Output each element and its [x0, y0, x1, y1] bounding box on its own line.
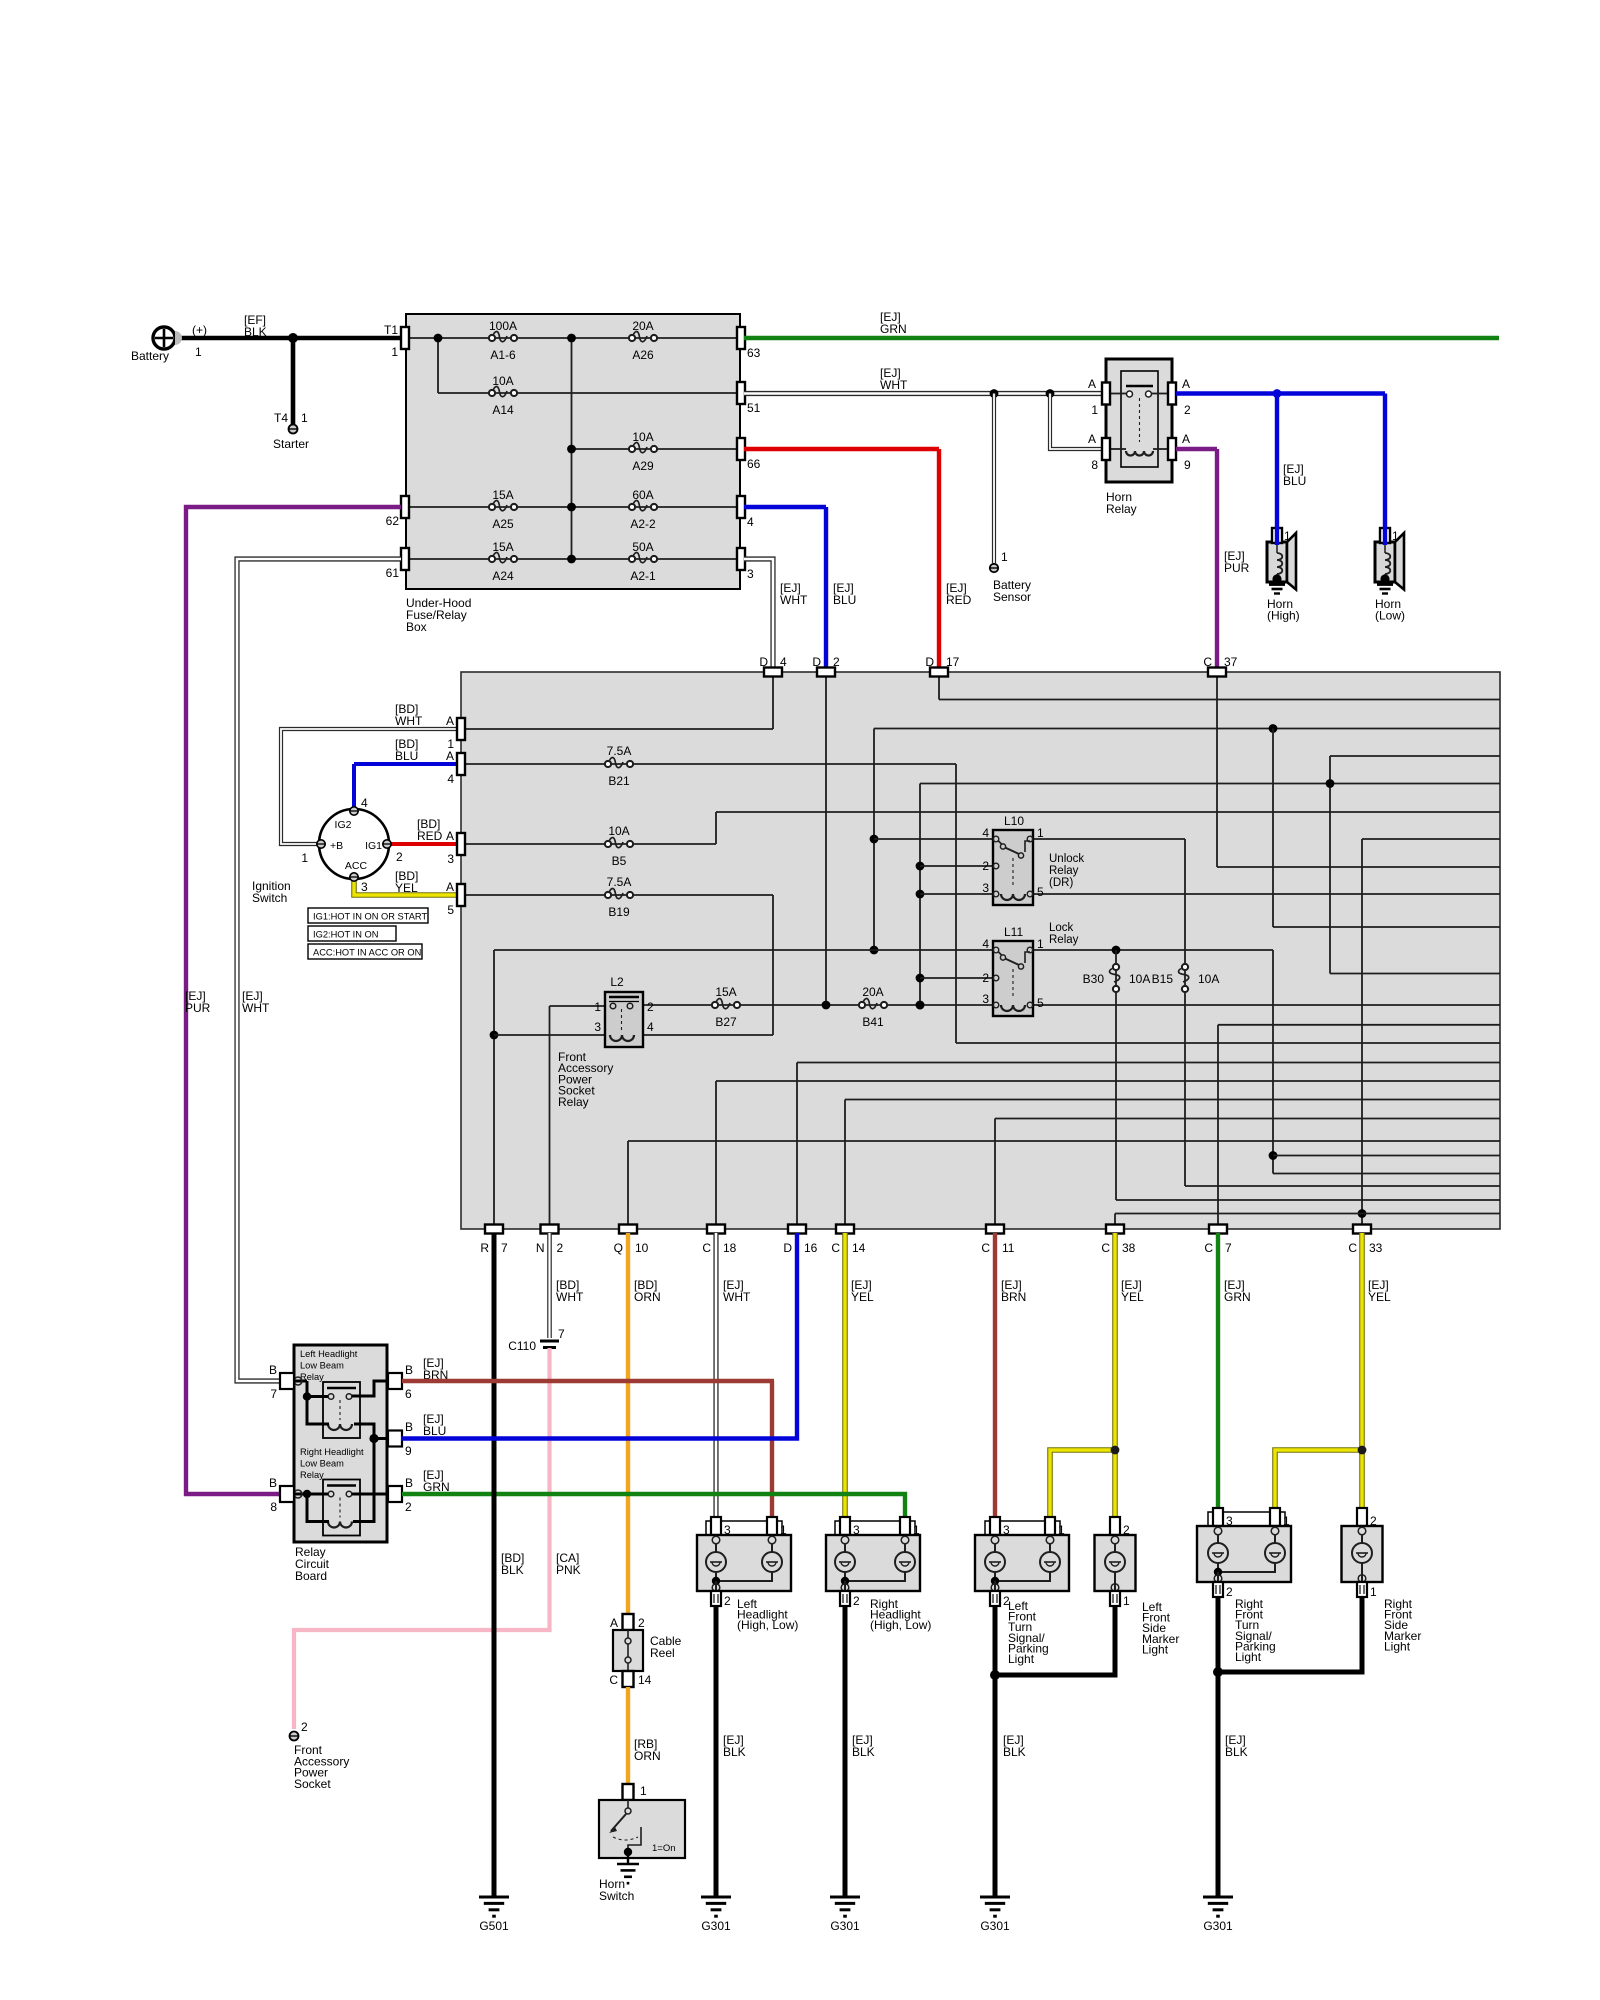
svg-text:B: B — [269, 1476, 277, 1490]
svg-text:Relay: Relay — [1049, 934, 1079, 946]
svg-text:3: 3 — [1226, 1514, 1233, 1528]
svg-text:WHT: WHT — [395, 714, 423, 728]
svg-text:Light: Light — [1008, 1652, 1035, 1666]
svg-text:YEL: YEL — [851, 1290, 874, 1304]
svg-text:BLK: BLK — [501, 1563, 524, 1577]
svg-text:4: 4 — [982, 937, 989, 951]
svg-text:3: 3 — [982, 881, 989, 895]
svg-text:7: 7 — [558, 1327, 565, 1341]
svg-text:4: 4 — [447, 772, 454, 786]
svg-text:1: 1 — [195, 345, 202, 359]
svg-text:Reel: Reel — [650, 1646, 675, 1660]
svg-text:L10: L10 — [1004, 814, 1024, 828]
svg-text:G301: G301 — [701, 1919, 731, 1933]
svg-text:GRN: GRN — [880, 322, 907, 336]
svg-text:1: 1 — [301, 411, 308, 425]
svg-text:BLU: BLU — [833, 593, 856, 607]
svg-text:1: 1 — [594, 1000, 601, 1014]
svg-text:WHT: WHT — [556, 1290, 584, 1304]
svg-text:1: 1 — [1284, 529, 1291, 543]
svg-text:BLK: BLK — [723, 1745, 746, 1759]
svg-text:4: 4 — [361, 796, 368, 810]
svg-text:ACC: ACC — [345, 860, 368, 872]
svg-text:17: 17 — [946, 655, 960, 669]
svg-text:C: C — [981, 1241, 990, 1255]
svg-text:IG2:HOT IN ON: IG2:HOT IN ON — [313, 930, 378, 940]
svg-text:1=On: 1=On — [652, 1843, 676, 1854]
svg-text:BLU: BLU — [395, 749, 418, 763]
svg-text:14: 14 — [852, 1241, 866, 1255]
svg-text:(High): (High) — [1267, 609, 1300, 623]
svg-text:A24: A24 — [492, 569, 514, 583]
svg-text:Box: Box — [406, 620, 427, 634]
svg-text:1: 1 — [913, 1523, 920, 1537]
svg-text:PUR: PUR — [185, 1001, 211, 1015]
svg-text:RED: RED — [417, 829, 443, 843]
svg-text:10A: 10A — [1198, 972, 1219, 986]
svg-text:Relay: Relay — [558, 1095, 589, 1109]
svg-text:WHT: WHT — [242, 1001, 270, 1015]
svg-text:B5: B5 — [612, 854, 627, 868]
svg-text:D: D — [925, 655, 934, 669]
svg-text:A29: A29 — [632, 459, 654, 473]
svg-text:B: B — [269, 1363, 277, 1377]
svg-text:10A: 10A — [492, 374, 513, 388]
svg-text:A14: A14 — [492, 403, 514, 417]
svg-text:Switch: Switch — [599, 1889, 634, 1903]
svg-text:20A: 20A — [632, 319, 653, 333]
svg-text:20A: 20A — [862, 985, 883, 999]
svg-text:7: 7 — [270, 1387, 277, 1401]
svg-text:Relay: Relay — [300, 1470, 324, 1480]
svg-text:15A: 15A — [492, 488, 513, 502]
svg-text:IG1: IG1 — [365, 840, 382, 852]
svg-text:Relay: Relay — [1106, 502, 1137, 516]
svg-text:9: 9 — [405, 1444, 412, 1458]
svg-text:1: 1 — [1392, 529, 1399, 543]
svg-text:6: 6 — [405, 1387, 412, 1401]
svg-text:A: A — [446, 714, 454, 728]
svg-text:3: 3 — [361, 880, 368, 894]
svg-text:BLU: BLU — [423, 1424, 446, 1438]
svg-text:18: 18 — [723, 1241, 737, 1255]
svg-text:Lock: Lock — [1049, 922, 1074, 934]
svg-text:G301: G301 — [980, 1919, 1010, 1933]
svg-text:G501: G501 — [479, 1919, 509, 1933]
svg-text:Switch: Switch — [252, 891, 287, 905]
svg-text:2: 2 — [557, 1241, 564, 1255]
svg-text:A26: A26 — [632, 348, 654, 362]
svg-text:4: 4 — [647, 1020, 654, 1034]
svg-text:3: 3 — [724, 1523, 731, 1537]
svg-text:4: 4 — [982, 826, 989, 840]
svg-text:PNK: PNK — [556, 1563, 581, 1577]
svg-text:D: D — [783, 1241, 792, 1255]
svg-text:1: 1 — [780, 1523, 787, 1537]
svg-text:7.5A: 7.5A — [607, 744, 632, 758]
svg-text:2: 2 — [638, 1616, 645, 1630]
svg-text:A: A — [1088, 377, 1096, 391]
svg-text:63: 63 — [747, 346, 761, 360]
svg-text:Low Beam: Low Beam — [300, 1459, 344, 1469]
svg-text:ACC:HOT IN ACC OR ON: ACC:HOT IN ACC OR ON — [313, 948, 421, 958]
svg-text:A: A — [1182, 432, 1190, 446]
svg-text:5: 5 — [1037, 996, 1044, 1010]
svg-text:(High, Low): (High, Low) — [870, 1618, 931, 1632]
svg-text:WHT: WHT — [723, 1290, 751, 1304]
svg-text:A: A — [446, 880, 454, 894]
svg-text:50A: 50A — [632, 540, 653, 554]
svg-text:16: 16 — [804, 1241, 818, 1255]
svg-text:14: 14 — [638, 1673, 652, 1687]
svg-text:Left Headlight: Left Headlight — [300, 1349, 358, 1359]
svg-text:C: C — [609, 1673, 618, 1687]
svg-text:60A: 60A — [632, 488, 653, 502]
svg-text:3: 3 — [447, 852, 454, 866]
svg-text:Right Headlight: Right Headlight — [300, 1447, 364, 1457]
svg-text:1: 1 — [1037, 826, 1044, 840]
svg-text:62: 62 — [386, 514, 400, 528]
svg-text:2: 2 — [982, 971, 989, 985]
svg-text:A: A — [610, 1616, 618, 1630]
svg-text:A25: A25 — [492, 517, 514, 531]
svg-text:Relay: Relay — [1049, 865, 1079, 877]
svg-text:WHT: WHT — [880, 378, 908, 392]
svg-text:Socket: Socket — [294, 1777, 331, 1791]
svg-text:(Low): (Low) — [1375, 609, 1405, 623]
svg-text:7: 7 — [501, 1241, 508, 1255]
svg-text:L11: L11 — [1004, 925, 1023, 939]
svg-text:2: 2 — [1123, 1523, 1130, 1537]
svg-text:A: A — [1088, 432, 1096, 446]
svg-text:RED: RED — [946, 593, 972, 607]
svg-text:3: 3 — [1003, 1523, 1010, 1537]
svg-text:B30: B30 — [1083, 972, 1105, 986]
svg-text:ORN: ORN — [634, 1290, 661, 1304]
svg-text:2: 2 — [982, 859, 989, 873]
svg-text:9: 9 — [1184, 458, 1191, 472]
svg-text:YEL: YEL — [1121, 1290, 1144, 1304]
svg-text:C: C — [1348, 1241, 1357, 1255]
svg-text:B21: B21 — [608, 774, 630, 788]
svg-text:+B: +B — [330, 840, 343, 852]
svg-text:Light: Light — [1142, 1642, 1169, 1656]
svg-text:2: 2 — [724, 1594, 731, 1608]
svg-text:4: 4 — [780, 655, 787, 669]
svg-text:15A: 15A — [715, 985, 736, 999]
svg-text:BLK: BLK — [1003, 1745, 1026, 1759]
svg-text:A: A — [1182, 377, 1190, 391]
svg-text:2: 2 — [405, 1500, 412, 1514]
svg-text:YEL: YEL — [1368, 1290, 1391, 1304]
svg-text:3: 3 — [594, 1020, 601, 1034]
svg-text:1: 1 — [640, 1784, 647, 1798]
svg-text:A2-2: A2-2 — [630, 517, 656, 531]
svg-text:(+): (+) — [192, 323, 207, 337]
svg-text:8: 8 — [270, 1500, 277, 1514]
svg-text:3: 3 — [747, 567, 754, 581]
svg-text:Unlock: Unlock — [1049, 853, 1084, 865]
svg-text:B19: B19 — [608, 905, 630, 919]
svg-text:A: A — [446, 829, 454, 843]
svg-text:C: C — [1101, 1241, 1110, 1255]
svg-text:4: 4 — [747, 515, 754, 529]
svg-text:51: 51 — [747, 401, 761, 415]
svg-text:2: 2 — [396, 850, 403, 864]
svg-text:T4: T4 — [274, 411, 288, 425]
svg-text:2: 2 — [833, 655, 840, 669]
svg-text:A: A — [446, 749, 454, 763]
svg-text:C: C — [831, 1241, 840, 1255]
svg-text:C: C — [1204, 1241, 1213, 1255]
svg-text:100A: 100A — [489, 319, 517, 333]
svg-text:5: 5 — [447, 903, 454, 917]
svg-text:8: 8 — [1091, 458, 1098, 472]
svg-text:A2-1: A2-1 — [630, 569, 656, 583]
svg-text:1: 1 — [1037, 937, 1044, 951]
svg-text:Starter: Starter — [273, 437, 309, 451]
svg-text:(DR): (DR) — [1049, 877, 1073, 889]
svg-text:1: 1 — [301, 851, 308, 865]
svg-text:D: D — [759, 655, 768, 669]
svg-text:B27: B27 — [715, 1015, 737, 1029]
svg-text:G301: G301 — [830, 1919, 860, 1933]
svg-text:66: 66 — [747, 457, 761, 471]
svg-text:C: C — [1203, 655, 1212, 669]
svg-text:GRN: GRN — [423, 1480, 450, 1494]
svg-text:15A: 15A — [492, 540, 513, 554]
svg-text:5: 5 — [1037, 885, 1044, 899]
svg-text:2: 2 — [853, 1594, 860, 1608]
svg-text:R: R — [480, 1241, 489, 1255]
svg-text:C: C — [702, 1241, 711, 1255]
svg-text:10A: 10A — [632, 430, 653, 444]
svg-text:BLU: BLU — [1283, 474, 1306, 488]
svg-text:33: 33 — [1369, 1241, 1383, 1255]
svg-text:Battery: Battery — [131, 349, 169, 363]
svg-text:T1: T1 — [384, 323, 398, 337]
svg-text:7.5A: 7.5A — [607, 875, 632, 889]
svg-text:61: 61 — [386, 566, 400, 580]
svg-text:10A: 10A — [1129, 972, 1150, 986]
svg-text:IG1:HOT IN ON OR START: IG1:HOT IN ON OR START — [313, 912, 427, 922]
svg-text:Q: Q — [614, 1241, 623, 1255]
svg-text:B: B — [405, 1363, 413, 1377]
svg-text:B15: B15 — [1152, 972, 1174, 986]
svg-text:B: B — [405, 1476, 413, 1490]
svg-text:Light: Light — [1384, 1639, 1411, 1653]
svg-text:10: 10 — [635, 1241, 649, 1255]
svg-text:1: 1 — [1283, 1514, 1290, 1528]
svg-text:3: 3 — [982, 992, 989, 1006]
svg-text:37: 37 — [1224, 655, 1238, 669]
svg-text:L2: L2 — [610, 975, 624, 989]
svg-text:ORN: ORN — [634, 1749, 661, 1763]
svg-text:1: 1 — [1123, 1594, 1130, 1608]
svg-text:C110: C110 — [508, 1339, 536, 1353]
svg-text:2: 2 — [301, 1720, 308, 1734]
svg-text:38: 38 — [1122, 1241, 1136, 1255]
svg-text:BLK: BLK — [1225, 1745, 1248, 1759]
svg-text:BRN: BRN — [1001, 1290, 1026, 1304]
svg-text:Board: Board — [295, 1569, 327, 1583]
svg-text:2: 2 — [1226, 1585, 1233, 1599]
svg-text:10A: 10A — [608, 824, 629, 838]
svg-text:G301: G301 — [1203, 1919, 1233, 1933]
svg-text:Light: Light — [1235, 1650, 1262, 1664]
svg-text:B41: B41 — [862, 1015, 884, 1029]
svg-text:1: 1 — [1058, 1523, 1065, 1537]
svg-text:(High, Low): (High, Low) — [737, 1618, 798, 1632]
svg-text:D: D — [812, 655, 821, 669]
svg-text:Low Beam: Low Beam — [300, 1361, 344, 1371]
svg-text:11: 11 — [1002, 1241, 1015, 1255]
svg-text:3: 3 — [853, 1523, 860, 1537]
svg-text:1: 1 — [1091, 403, 1098, 417]
svg-text:1: 1 — [1370, 1585, 1377, 1599]
svg-text:2: 2 — [1370, 1514, 1377, 1528]
svg-text:BLK: BLK — [852, 1745, 875, 1759]
svg-text:B: B — [405, 1420, 413, 1434]
svg-text:IG2: IG2 — [335, 819, 352, 831]
svg-text:7: 7 — [1225, 1241, 1232, 1255]
svg-text:2: 2 — [1184, 403, 1191, 417]
svg-text:2: 2 — [647, 1000, 654, 1014]
svg-text:1: 1 — [391, 345, 398, 359]
svg-text:PUR: PUR — [1224, 561, 1250, 575]
svg-text:YEL: YEL — [395, 881, 418, 895]
svg-text:BLK: BLK — [244, 325, 267, 339]
svg-text:N: N — [536, 1241, 545, 1255]
svg-text:GRN: GRN — [1224, 1290, 1251, 1304]
svg-text:Sensor: Sensor — [993, 590, 1031, 604]
svg-text:A1-6: A1-6 — [490, 348, 516, 362]
svg-text:1: 1 — [1001, 550, 1008, 564]
svg-text:WHT: WHT — [780, 593, 808, 607]
